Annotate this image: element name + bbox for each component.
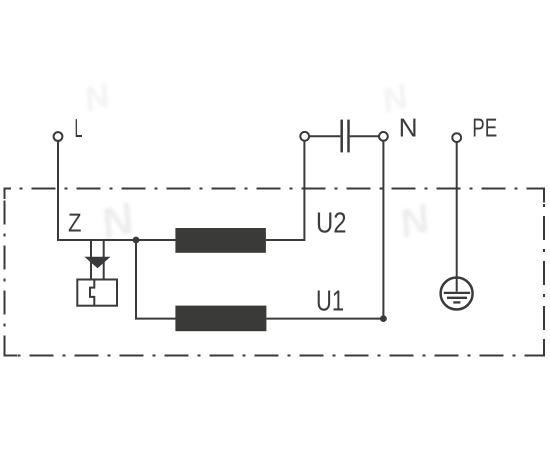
boundary corner top-left — [5, 189, 12, 200]
terminal N — [379, 132, 388, 141]
wire from winding U1 to node under N — [266, 318, 383, 320]
watermark top-right — [378, 77, 413, 121]
terminal PE — [452, 133, 461, 142]
protective earth symbol — [441, 278, 473, 310]
wire capacitor left — [309, 135, 340, 137]
svg-text:PE: PE — [472, 113, 497, 143]
terminal L — [54, 132, 63, 141]
thermal protector contact notch — [90, 280, 94, 306]
thermal protector actuation arrow — [84, 257, 110, 269]
wire capacitor right — [350, 135, 379, 137]
enclosure dashed boundary — [5, 189, 545, 356]
wire main horizontal from L to winding U2 — [58, 239, 176, 241]
wire L down — [57, 141, 59, 241]
wire branch down to winding U1 — [136, 240, 176, 319]
svg-text:N: N — [399, 113, 418, 143]
thermal protector body — [77, 280, 117, 306]
wire PE down — [456, 142, 458, 292]
boundary corner bottom-right — [530, 341, 544, 356]
boundary corner bottom-left — [5, 345, 18, 356]
terminal node at capacitor left — [300, 132, 309, 141]
node junction on main wire — [133, 237, 140, 244]
node junction N-U1 — [380, 315, 387, 322]
boundary corner top-right — [531, 189, 544, 203]
winding U1 — [175, 306, 266, 332]
svg-text:L: L — [75, 113, 83, 143]
wire thermal protector lead left — [90, 240, 92, 280]
winding U2 — [175, 228, 266, 253]
wire N down — [382, 141, 384, 319]
svg-text:Z: Z — [68, 208, 82, 238]
watermark mid-right — [394, 196, 435, 247]
svg-text:U1: U1 — [316, 286, 344, 318]
watermark top-left — [80, 76, 115, 120]
watermark mid-left — [95, 193, 140, 249]
capacitor C1 — [342, 120, 349, 153]
svg-text:U2: U2 — [316, 208, 347, 240]
wire from winding U2 to capacitor node — [266, 141, 305, 240]
wire thermal protector lead right — [103, 240, 105, 280]
